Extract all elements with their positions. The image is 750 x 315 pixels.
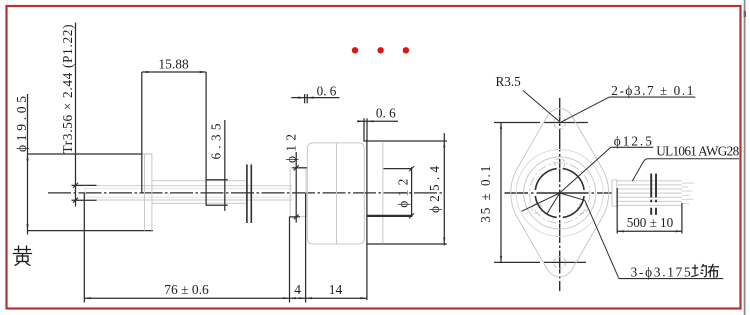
label 14 bbox=[329, 282, 343, 297]
label phi12.5 bbox=[614, 133, 652, 148]
boss phi12 light outline bbox=[290, 168, 306, 217]
svg-text:2-ϕ3.7 ± 0.1: 2-ϕ3.7 ± 0.1 bbox=[611, 83, 693, 98]
dimension 0.6 first (boss step) bbox=[291, 94, 339, 103]
dimension phi19.05 extension line bottom bbox=[27, 230, 153, 232]
label R3.5 bbox=[496, 74, 522, 89]
hub cylinder light outline bbox=[152, 181, 247, 204]
ear hole top phi3.7 bbox=[554, 117, 566, 129]
centerline of leadscrew axis (side view) bbox=[48, 192, 444, 194]
ear hole bottom phi3.7 bbox=[554, 257, 566, 269]
label 76 +/- 0.6 bbox=[164, 282, 209, 297]
dimension 15.88 right extension line / journal left edge bbox=[205, 72, 207, 206]
label 3-phi3.175 junbu (text with CJK drawn as paths) bbox=[631, 264, 691, 279]
red dot 2 bbox=[377, 47, 383, 53]
leader R3.5 bbox=[523, 91, 560, 123]
CJK junbu glyphs bbox=[691, 264, 719, 278]
rotor magnet light edge bbox=[382, 142, 384, 244]
label 4 bbox=[294, 282, 301, 297]
dimension phi12 rotor vertical line bbox=[409, 166, 414, 218]
dimension phi19.05 extension line top bbox=[28, 153, 153, 155]
dimension 0.6 second (can step) bbox=[357, 118, 398, 141]
svg-text:R3.5: R3.5 bbox=[496, 74, 522, 89]
motor can top edge bbox=[363, 140, 447, 142]
front view horizontal centerline bbox=[505, 192, 613, 194]
extension line 4 left bbox=[289, 217, 291, 303]
label 0.6 second bbox=[376, 105, 396, 120]
mounting hole top centerline bar bbox=[494, 122, 588, 124]
bearing journal box 6.35 bbox=[206, 120, 228, 211]
dimension phi19.05 vertical dimension line bbox=[26, 94, 28, 235]
svg-text:ϕ12.5: ϕ12.5 bbox=[614, 133, 652, 148]
dimension Tr3.56x2.44 vertical line bbox=[73, 23, 78, 207]
svg-text:4: 4 bbox=[294, 282, 301, 297]
dimension 15.88 left extension line bbox=[141, 72, 143, 193]
svg-text:ϕ12: ϕ12 bbox=[283, 134, 298, 163]
label 15.88 bbox=[158, 56, 189, 71]
small hole lower-right bbox=[578, 203, 588, 213]
flange oval outline light bbox=[511, 109, 609, 277]
label UL1061 AWG28 bbox=[656, 144, 739, 159]
label 2-phi3.7 +/- 0.1 bbox=[611, 83, 693, 98]
lead wires light bbox=[617, 181, 694, 206]
pilot circle phi12.5 dark bbox=[535, 169, 584, 218]
label phi12 rotor bbox=[396, 179, 411, 208]
front view vertical centerline bbox=[559, 98, 561, 291]
boss light circle bbox=[524, 157, 596, 229]
svg-text:14: 14 bbox=[329, 282, 343, 297]
leader UL1061 bbox=[632, 159, 739, 181]
dimension phi12 front boss vertical line bbox=[294, 152, 299, 223]
leader 3-phi3.175 bbox=[560, 193, 724, 279]
label 0.6 first bbox=[317, 83, 337, 98]
svg-text:0. 6: 0. 6 bbox=[376, 105, 396, 120]
leadscrew thread extension line top bbox=[72, 184, 97, 186]
svg-text:15.88: 15.88 bbox=[158, 56, 189, 71]
svg-text:6.35: 6.35 bbox=[208, 123, 223, 159]
small hole lower-left bbox=[532, 203, 542, 213]
connector light box bbox=[612, 180, 617, 206]
label phi12 front bbox=[283, 134, 298, 163]
motor can bottom edge bbox=[367, 243, 447, 245]
svg-text:Tr3.56 × 2.44 (P1.22): Tr3.56 × 2.44 (P1.22) bbox=[60, 25, 75, 154]
output gear disk phi19.05 light outline bbox=[145, 154, 152, 231]
label Tr3.56 x 2.44 (P1.22) bbox=[60, 25, 75, 154]
shaft joint double bars bbox=[247, 165, 251, 224]
spoke to circle lower-left bbox=[547, 193, 560, 214]
extension line 76 left bbox=[83, 193, 85, 303]
dimension line 76 / 4 / 14 bbox=[84, 297, 367, 299]
rotor phi12 bottom edge bbox=[367, 215, 412, 217]
label phi25.4 bbox=[427, 166, 442, 213]
dimension phi12 extension ticks bbox=[289, 168, 307, 217]
extension line 4 right bbox=[305, 193, 307, 302]
small hole top (3-phi3.175) bbox=[555, 158, 565, 168]
leader phi12.5 bbox=[560, 147, 654, 193]
can rim light circle bbox=[516, 150, 603, 237]
motor can rear face / dimension phi25.4 line bbox=[443, 133, 445, 246]
red dot 3 bbox=[403, 47, 409, 53]
rotor phi12 top edge bbox=[383, 168, 412, 170]
motor can front face bbox=[366, 140, 368, 300]
right edge gray scrollbar line bbox=[744, 0, 746, 315]
leadscrew shaft light outline bbox=[85, 186, 292, 200]
label 500 +/- 10 bbox=[627, 215, 674, 230]
svg-text:500 ± 10: 500 ± 10 bbox=[627, 215, 674, 230]
spoke to lower-left hole bbox=[522, 193, 560, 211]
label phi19.05 bbox=[14, 96, 29, 152]
bolt circle light dash-dot bbox=[530, 163, 590, 223]
svg-text:76 ± 0.6: 76 ± 0.6 bbox=[164, 282, 209, 297]
svg-text:0. 6: 0. 6 bbox=[317, 83, 337, 98]
leader 2-phi3.7 bbox=[560, 97, 695, 123]
leadscrew thread extension line bottom bbox=[72, 199, 97, 201]
dimension 500 +/- 10 bbox=[617, 188, 682, 234]
svg-text:35 ± 0.1: 35 ± 0.1 bbox=[478, 166, 493, 223]
CJK huang (yellow) label bbox=[13, 246, 32, 266]
dimension 35 +/- 0.1 vertical line bbox=[500, 123, 502, 263]
red dot 1 bbox=[352, 47, 358, 53]
wire break double bars bbox=[651, 174, 656, 215]
gearbox bracket light outline bbox=[307, 143, 364, 244]
label 35 +/- 0.1 bbox=[478, 166, 493, 223]
label 6.35 bbox=[208, 123, 223, 159]
svg-text:UL1061 AWG28: UL1061 AWG28 bbox=[656, 144, 739, 159]
mounting hole bottom centerline bar bbox=[494, 261, 586, 263]
svg-text:ϕ12: ϕ12 bbox=[396, 179, 411, 208]
dimension 15.88 line with arrows bbox=[142, 71, 206, 73]
